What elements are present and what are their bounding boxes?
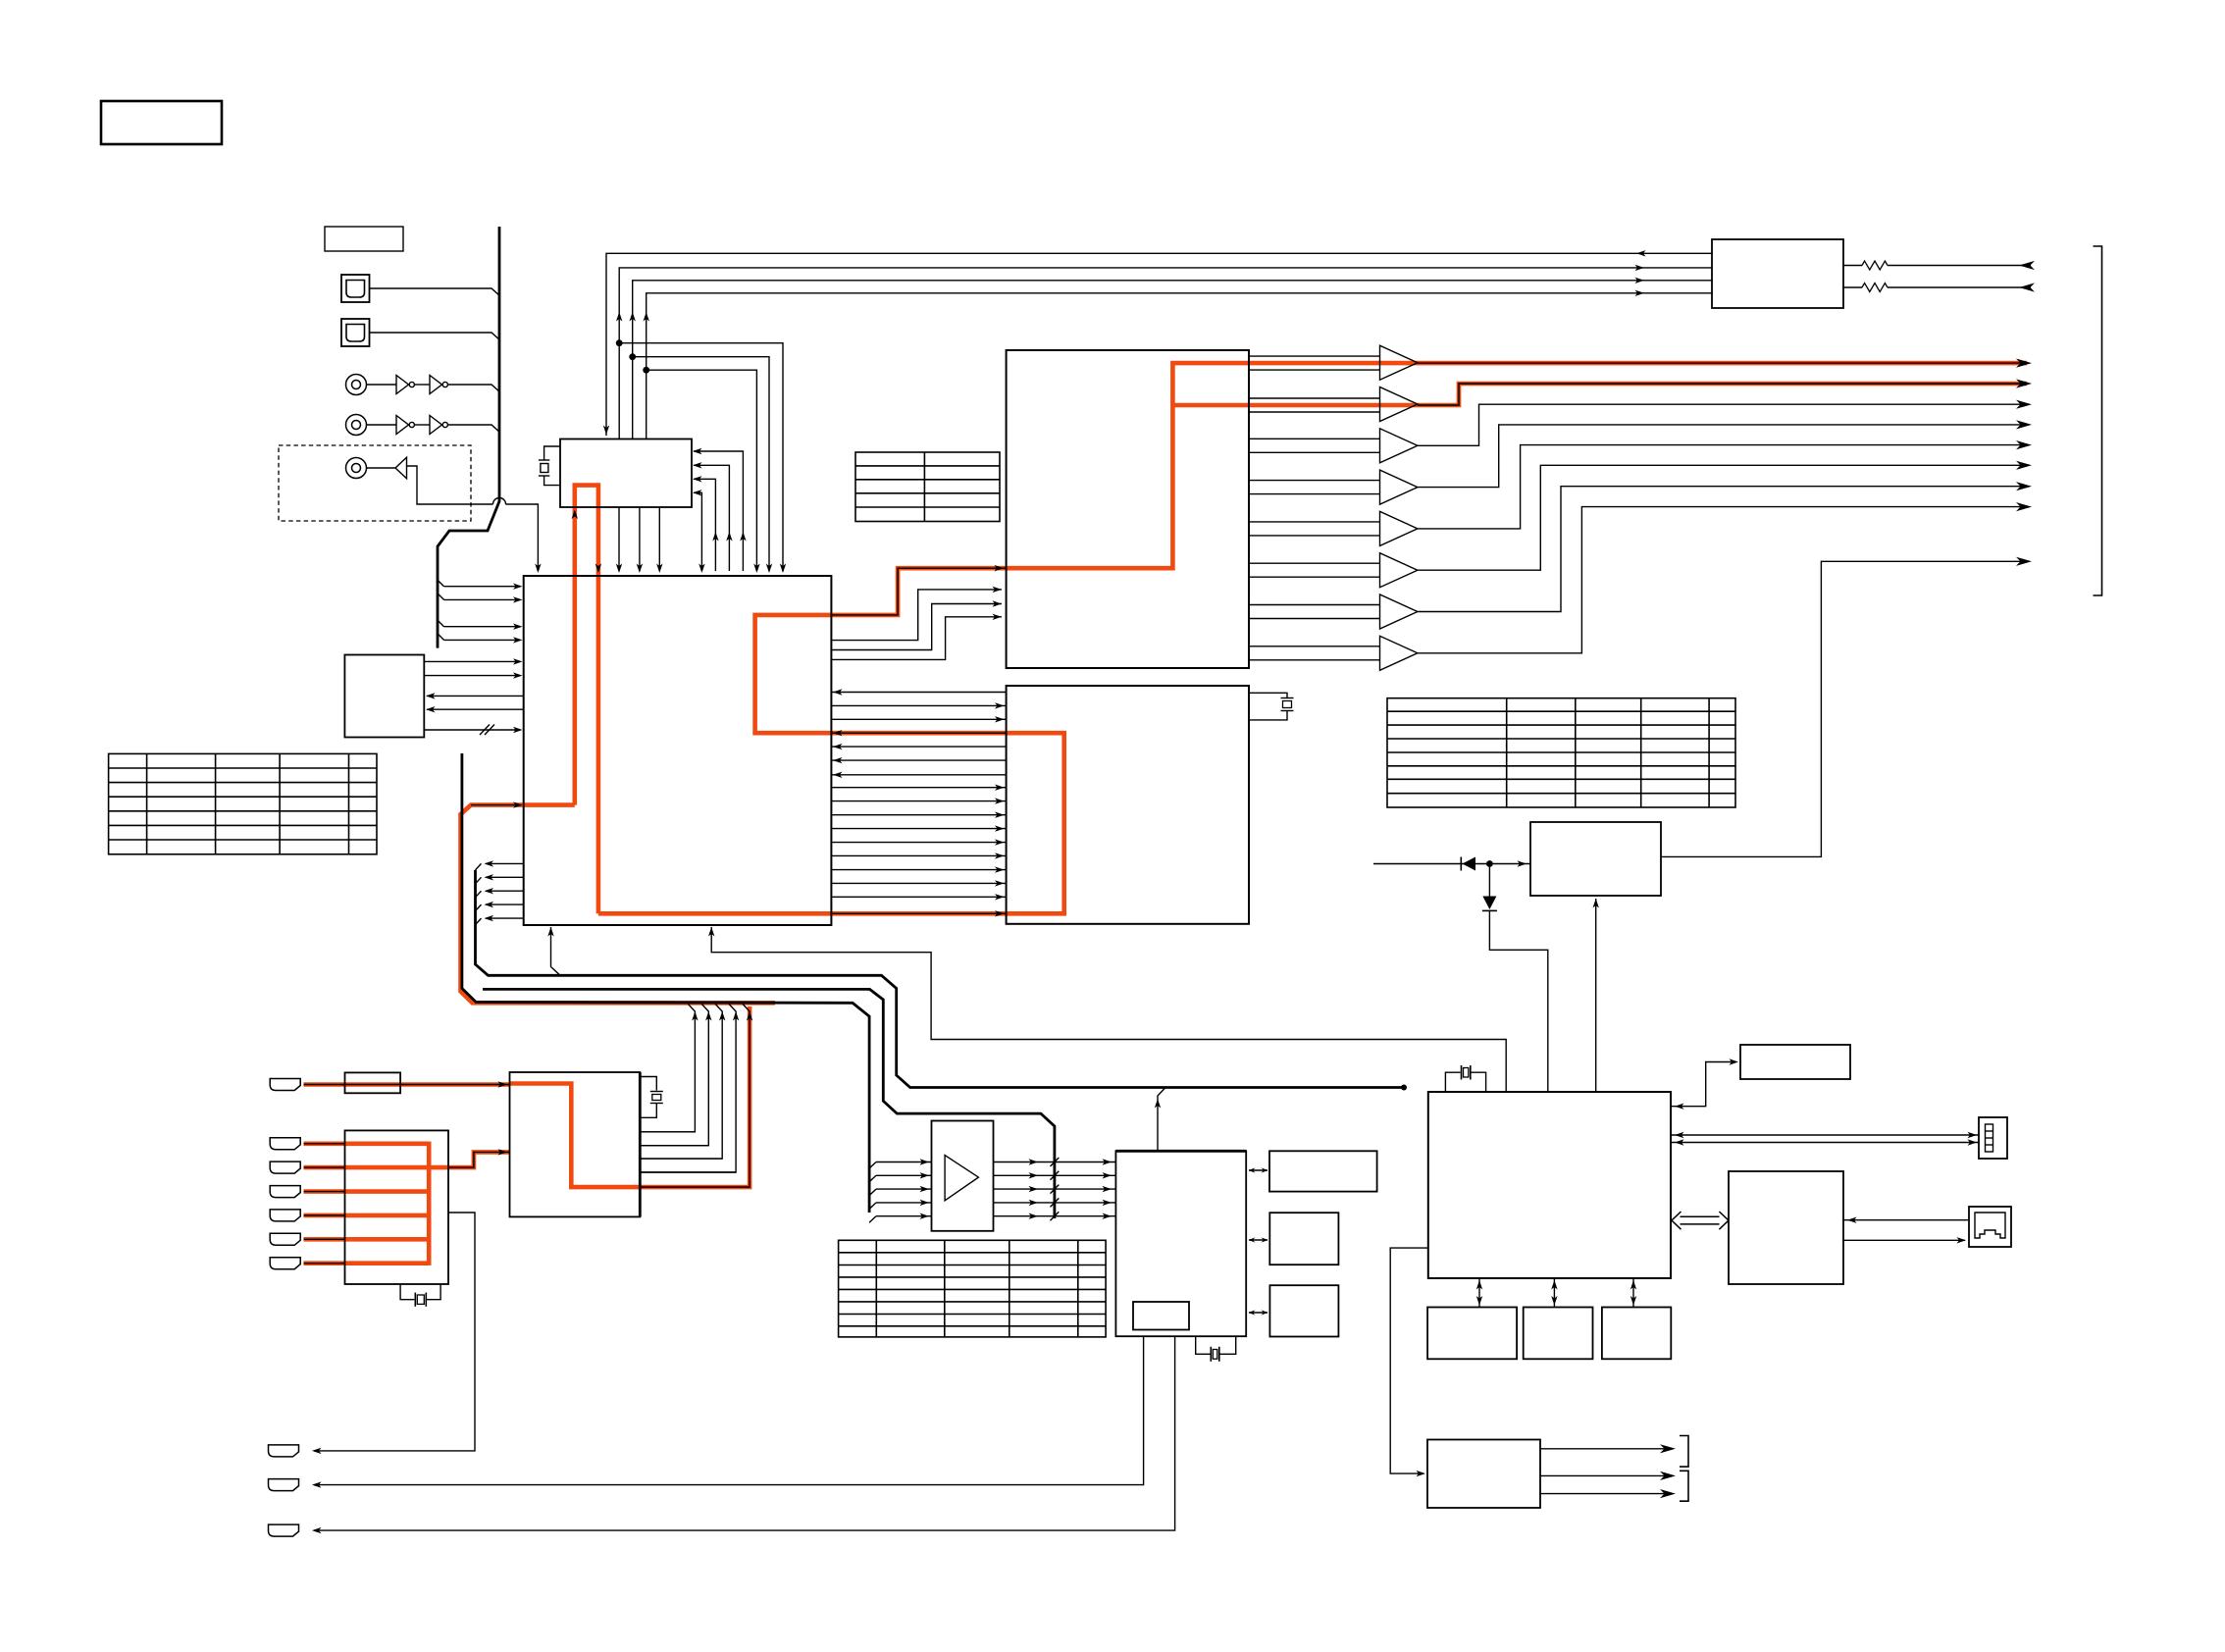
highlighted audio path - analog input tab1 to codec (304, 1082, 510, 1087)
U3 right pins from central DSP (694, 451, 743, 571)
U11 sub-block (1133, 1302, 1189, 1330)
codec crystal X5 (640, 1077, 656, 1091)
optical connector J2 outer (341, 319, 370, 346)
bidir arrow U11-R3 (1249, 1312, 1268, 1314)
top interconnect line 2 (619, 268, 1712, 343)
wire U1a to U1b (414, 384, 430, 386)
orange arrow into AV switch (995, 565, 1005, 571)
U3 right pin to central DSP down (694, 492, 701, 571)
signal table right (1387, 698, 1735, 807)
dashed option box (279, 445, 471, 521)
wire line4 down to clock box (646, 370, 647, 439)
modular jack J6 (1969, 1207, 2011, 1247)
central DSP/switch U4 (524, 576, 832, 925)
bus wires from central DSP left lower (486, 862, 524, 864)
connector tab P4 (270, 1186, 300, 1198)
highlighted path inside video processor (831, 733, 1063, 913)
supervisor to CPU vertical (1595, 899, 1597, 1092)
codec output wires (cores) (640, 1131, 695, 1133)
U5 bus wire with slash (424, 729, 518, 731)
highlighted path inside AV switch up to outputs (1007, 363, 2027, 568)
branch line2 to central DSP (619, 343, 783, 571)
VFD driver U14 (1427, 1440, 1540, 1509)
wire central DSP to video (core) (831, 912, 1006, 914)
staircase outputs to right arrows (1418, 404, 2027, 445)
video processor U9 (1007, 686, 1249, 924)
AV switch input jogs from central DSP (831, 590, 1002, 641)
wire into central DSP left (core) (471, 804, 521, 806)
legend box (325, 227, 403, 251)
reset supervisor U10 (1530, 822, 1661, 896)
hollow bidirectional bus CPU-PHY (1672, 1212, 1729, 1229)
U5 to central wires (424, 660, 518, 662)
amp symbol triangle (945, 1156, 978, 1201)
side box R2 of U11 (1269, 1213, 1338, 1265)
top interconnect line 3 (633, 281, 1712, 357)
central bottom wire to CPU (711, 927, 1506, 1092)
buffer input pairs (1249, 438, 1380, 439)
wire optical J2 to input bus (370, 333, 499, 339)
highlighted path - central DSP up into clock box and back (575, 486, 598, 914)
inverter U1b (430, 376, 442, 394)
branch line3 to central DSP (633, 357, 769, 571)
bracket VFD group 1 (1680, 1436, 1688, 1468)
highlighted path back through central DSP to AV switch (755, 568, 1007, 733)
highlighted path - filter to codec jog (427, 1152, 510, 1167)
filter block U16 (345, 1130, 449, 1284)
wire AV switch output row1 (core) (1249, 355, 1380, 357)
wire line3 down to clock box (632, 357, 634, 439)
U11 crystal X3 (1196, 1336, 1211, 1354)
amp input wires (876, 1162, 932, 1163)
wire tab1 to codec (core) (304, 1084, 510, 1086)
resistor R2 wire (1843, 286, 1862, 288)
diode D1 (1460, 857, 1462, 871)
central bottom wire to audio bus A (551, 927, 561, 975)
side box R3 of U11 (1269, 1285, 1338, 1336)
wire U2a to U2b (414, 424, 430, 426)
thick bus B horizontal (483, 989, 1055, 1218)
wire video to central return (core) (831, 732, 1006, 734)
PHY to jack wires (1843, 1219, 1969, 1221)
codec output risers to bus (640, 1005, 695, 1132)
U16 crystal X6 (400, 1284, 414, 1300)
wire A1 output to central DSP with hop over bus (407, 466, 493, 504)
right output arrows (2016, 359, 2032, 368)
crystal X1 of U3 (544, 446, 560, 460)
bracket right connector group (2094, 246, 2102, 595)
signal table left (109, 753, 377, 853)
thick input bus vertical (438, 227, 499, 648)
wire U1b to input bus (447, 385, 498, 391)
output buffer triangles (1380, 345, 1418, 380)
memory box M2 (1524, 1308, 1593, 1360)
codec input arrows (498, 1081, 508, 1087)
amplifier block U6 (932, 1121, 994, 1231)
wire filter to codec (core) (448, 1152, 510, 1167)
inverter U1a (396, 376, 409, 394)
wire J5 to buffer (367, 467, 396, 469)
signal table mid (855, 452, 1000, 522)
inverter U2a (396, 416, 409, 435)
highlighted path - multichannel input tabs through filter block (304, 1142, 430, 1147)
bidir arrow U11-R1 (1249, 1169, 1268, 1171)
signal table bottom (839, 1240, 1107, 1337)
clock detect box U3 (560, 439, 692, 508)
junction node line2 (616, 339, 623, 346)
diode D2 to CPU (1488, 864, 1490, 897)
RCA jack J5 in dashed box (346, 458, 367, 479)
orange arrows at clock box (572, 510, 578, 520)
main CPU U12 (1428, 1092, 1671, 1278)
connector tab P2 (270, 1138, 300, 1150)
U3 bottom pins to central DSP (618, 507, 620, 571)
resistor R1 wire (1843, 265, 1862, 267)
branch line4 to central DSP (647, 370, 757, 571)
side box R1 of U11 (1269, 1151, 1377, 1191)
codec merge bus (black over orange) (462, 753, 869, 1213)
connector tab P3 (270, 1162, 300, 1173)
option rect (1740, 1045, 1850, 1079)
U11 to bus A riser (1158, 1088, 1165, 1152)
CPU to option rect wire (1671, 1062, 1733, 1107)
connector tab P10 (269, 1524, 299, 1536)
wire line2 down to clock box (618, 343, 620, 439)
bidir arrow U11-R2 (1249, 1239, 1268, 1241)
arrow dashed-box line into central top (535, 564, 541, 574)
highlighted path inside codec U_codec (510, 1007, 750, 1187)
orange arrow into video processor (995, 910, 1005, 916)
wires central DSP to video processor (831, 704, 1006, 706)
bus C fan-out taps to amplifier (869, 1162, 876, 1169)
connector tab P8 (269, 1445, 299, 1457)
wire central to AV switch (core) (831, 568, 1006, 615)
wire U2b to input bus (447, 425, 498, 432)
CPU to DIP switch wires (1671, 1134, 1979, 1136)
thick bus A bend to CPU area (844, 975, 1404, 1087)
junction node line3 (629, 353, 636, 360)
connector tab P5 (270, 1210, 300, 1221)
optical connector J1 outer (341, 275, 370, 302)
CPU left wire down to VFD driver (1390, 1248, 1428, 1473)
junction node supervisor (1486, 860, 1493, 867)
amp output wires to HDMI transmitter (994, 1162, 1116, 1163)
connector tab P9 (269, 1479, 299, 1491)
highlighted path - central DSP to video processor (598, 911, 1007, 916)
inline filter F1 (345, 1072, 401, 1093)
orange return arrow at central DSP (833, 730, 843, 736)
U11 bottom wire to tab C (314, 1336, 1175, 1530)
lower-left bus from central DSP (476, 870, 845, 975)
input bus taps to central DSP (438, 580, 444, 587)
highlighted path - filter block internal vertical (427, 1142, 432, 1265)
RF box U8 (1712, 239, 1843, 308)
supervisor output to right arrow (1661, 561, 2027, 856)
connector tab P7 (270, 1258, 300, 1269)
buffer amp A1 (pointing left) (395, 457, 407, 479)
CPU crystal X4 (1445, 1072, 1460, 1092)
left box U5 (front ctrl) (344, 655, 424, 738)
central to U5 wires (427, 695, 524, 697)
AV switch U7 (1007, 350, 1249, 668)
connector tab P1 (270, 1079, 300, 1091)
connector tab P6 (270, 1233, 300, 1245)
inverter U2b (430, 416, 442, 435)
top interconnect line 1 (606, 253, 1638, 436)
junction node line4 (643, 367, 649, 374)
bracket VFD group 2 (1680, 1471, 1688, 1501)
U16 to tab A wire (314, 1213, 475, 1451)
wire bottom connector tabs to filter (cores) (304, 1143, 345, 1145)
DIP switch S1 (1979, 1117, 2007, 1159)
RCA jack J3 (346, 375, 367, 395)
ethernet PHY U13 (1729, 1171, 1843, 1284)
video processor crystal X2 (1249, 693, 1287, 697)
memory bus arrows below CPU (1478, 1278, 1480, 1308)
VFD outputs (1540, 1448, 1670, 1450)
highlighted path - bottom connectors up left bus to central DSP (461, 805, 776, 1004)
bus A end dot (1401, 1085, 1407, 1091)
wire J4 to inverter (367, 424, 397, 426)
HDMI transmitter U11 (1115, 1151, 1246, 1336)
U11 bottom wire to tab B (314, 1336, 1144, 1484)
wire optical J1 to input bus (370, 288, 499, 295)
memory box M3 (1602, 1308, 1671, 1360)
title block (101, 101, 222, 144)
memory box M1 (1427, 1308, 1517, 1360)
wire AV switch output row2 (core) (1249, 397, 1380, 399)
audio codec U15 (510, 1072, 641, 1216)
optical connector J1 inner (346, 281, 365, 298)
RCA jack J4 (346, 415, 367, 436)
diode D1 wire stub (1373, 863, 1530, 865)
optical connector J2 inner (346, 325, 365, 342)
top interconnect line 4 (647, 293, 1712, 370)
wire J3 to inverter (367, 384, 397, 386)
highlighted output row 2 with jog (1172, 384, 2027, 405)
